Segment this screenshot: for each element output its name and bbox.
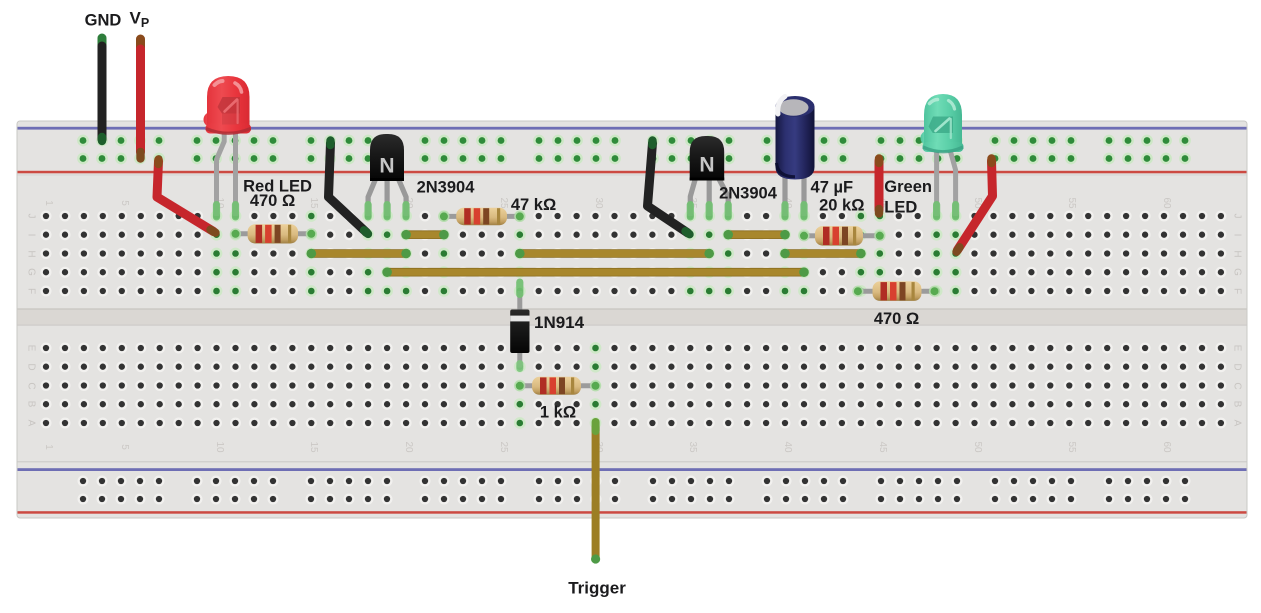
wire: black bent wire rail row1 to row I col18 bbox=[329, 141, 369, 234]
svg-text:60: 60 bbox=[1161, 441, 1172, 453]
svg-text:50: 50 bbox=[972, 441, 983, 453]
resistor R5 1k row C col26-col30 bbox=[514, 377, 601, 395]
LED green cols48-49 bbox=[921, 94, 964, 221]
svg-text:LED: LED bbox=[884, 199, 917, 217]
svg-text:F: F bbox=[25, 288, 36, 294]
transistor Q2 2N3904 cols35-37 bbox=[687, 136, 732, 221]
bottom rail red line bbox=[18, 511, 1247, 514]
svg-text:30: 30 bbox=[593, 197, 604, 209]
svg-text:25: 25 bbox=[498, 197, 509, 209]
top rail blue line bbox=[18, 127, 1247, 130]
svg-text:C: C bbox=[1231, 382, 1242, 389]
svg-text:60: 60 bbox=[1161, 197, 1172, 209]
svg-text:G: G bbox=[25, 268, 36, 276]
svg-text:B: B bbox=[25, 401, 36, 408]
jumper row I col37-col40 bbox=[723, 230, 789, 240]
resistor R2 47k row J col22-col26 bbox=[438, 208, 525, 226]
svg-text:H: H bbox=[1231, 250, 1242, 257]
svg-text:N: N bbox=[699, 154, 714, 177]
svg-text:1 kΩ: 1 kΩ bbox=[540, 404, 576, 422]
svg-text:D: D bbox=[1231, 363, 1242, 370]
bottom rail blue line bbox=[18, 468, 1247, 471]
center channel bbox=[18, 308, 1247, 325]
svg-text:55: 55 bbox=[1066, 441, 1077, 453]
svg-text:1: 1 bbox=[43, 200, 54, 206]
svg-text:1N914: 1N914 bbox=[534, 313, 585, 332]
jumper row H col15-col20 bbox=[307, 249, 411, 259]
svg-text:N: N bbox=[379, 155, 394, 178]
wire: red bent wire rail row2 to row I col10 bbox=[157, 160, 216, 233]
svg-text:20: 20 bbox=[403, 441, 414, 453]
wire: Vp red jumper from top into rail row2 bbox=[136, 39, 145, 159]
jumper row H col26-col36 bbox=[515, 249, 714, 259]
wire: red vertical rail row2 to row J col45 bbox=[875, 159, 884, 214]
diode D1 1N914 col26 vertical bbox=[510, 279, 529, 373]
svg-text:J: J bbox=[1231, 214, 1242, 219]
svg-text:25: 25 bbox=[498, 441, 509, 453]
svg-text:J: J bbox=[25, 214, 36, 219]
svg-text:45: 45 bbox=[877, 441, 888, 453]
svg-text:2N3904: 2N3904 bbox=[719, 185, 778, 203]
svg-text:470 Ω: 470 Ω bbox=[250, 192, 295, 210]
wire: black bent wire rail row1 to row I col35 bbox=[648, 141, 690, 235]
wire: GND black jumper from top into rail row1 bbox=[98, 38, 107, 141]
svg-text:1: 1 bbox=[43, 444, 54, 450]
svg-text:15: 15 bbox=[308, 197, 319, 209]
svg-text:35: 35 bbox=[687, 441, 698, 453]
svg-text:C: C bbox=[25, 382, 36, 389]
svg-text:Trigger: Trigger bbox=[568, 579, 626, 598]
resistor R1 470ohm row I col11-col15 bbox=[230, 224, 317, 243]
resistor R3 20k row I col41-col45 bbox=[798, 226, 885, 246]
capacitor C1 47uF cols40-41 bbox=[776, 96, 815, 221]
resistor R4 470ohm row F col44-col48 bbox=[852, 281, 940, 301]
transistor Q1 2N3904 cols18-20 bbox=[365, 134, 410, 221]
svg-text:Green: Green bbox=[884, 178, 932, 196]
jumper row H col40-col44 bbox=[780, 249, 866, 259]
svg-text:VP: VP bbox=[130, 9, 150, 31]
svg-text:15: 15 bbox=[308, 441, 319, 453]
svg-text:B: B bbox=[1231, 401, 1242, 408]
svg-text:5: 5 bbox=[119, 200, 130, 206]
svg-text:470 Ω: 470 Ω bbox=[874, 310, 919, 328]
svg-text:E: E bbox=[25, 345, 36, 352]
svg-text:D: D bbox=[25, 363, 36, 370]
svg-text:A: A bbox=[1231, 420, 1242, 427]
svg-text:47 kΩ: 47 kΩ bbox=[511, 196, 556, 214]
wire: Trigger vertical col30 row A down bbox=[591, 418, 600, 564]
svg-text:G: G bbox=[1231, 268, 1242, 276]
jumper row G col19-col41 bbox=[382, 267, 808, 277]
svg-text:GND: GND bbox=[85, 12, 122, 30]
top rail red line bbox=[18, 171, 1247, 174]
svg-text:I: I bbox=[25, 234, 36, 237]
breadboard body bbox=[17, 121, 1247, 518]
svg-text:5: 5 bbox=[119, 444, 130, 450]
svg-text:55: 55 bbox=[1066, 197, 1077, 209]
svg-text:2N3904: 2N3904 bbox=[417, 179, 476, 197]
svg-text:40: 40 bbox=[782, 441, 793, 453]
jumper row I col20-col22 bbox=[401, 230, 448, 240]
svg-text:E: E bbox=[1231, 345, 1242, 352]
svg-text:A: A bbox=[25, 420, 36, 427]
LED red cols10-11 bbox=[204, 76, 252, 221]
svg-text:10: 10 bbox=[214, 441, 225, 453]
svg-text:H: H bbox=[25, 250, 36, 257]
svg-text:I: I bbox=[1231, 234, 1242, 237]
wire: red bent wire rail row2 to row H col49 bbox=[957, 159, 993, 252]
svg-text:F: F bbox=[1231, 288, 1242, 294]
svg-text:20 kΩ: 20 kΩ bbox=[819, 197, 864, 215]
svg-text:47 µF: 47 µF bbox=[811, 179, 854, 197]
